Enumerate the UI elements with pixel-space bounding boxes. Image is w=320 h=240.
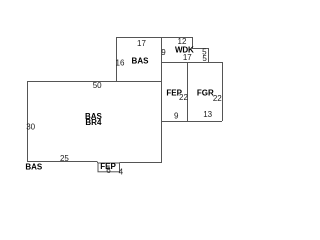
- svg-text:BAS: BAS: [132, 56, 150, 65]
- svg-text:BR4: BR4: [85, 118, 102, 127]
- wire bottom step: [97, 162, 99, 164]
- svg-text:25: 25: [60, 154, 69, 163]
- wire bottom line right: [120, 162, 162, 164]
- svg-text:5: 5: [202, 54, 207, 63]
- wire FEP FGR divider: [187, 62, 189, 121]
- svg-text:17: 17: [137, 39, 146, 48]
- svg-text:13: 13: [203, 110, 212, 119]
- wire big box top edge: [27, 81, 161, 83]
- svg-text:BAS: BAS: [25, 162, 43, 171]
- svg-text:FGR: FGR: [197, 89, 214, 98]
- wire WDK bottom / FEP FGR top: [161, 62, 222, 64]
- svg-text:22: 22: [179, 93, 188, 102]
- svg-text:22: 22: [213, 94, 222, 103]
- small FEP porch box: [98, 163, 120, 172]
- svg-text:4: 4: [119, 167, 124, 176]
- svg-text:FEP: FEP: [100, 162, 116, 171]
- wire bottom line left: [27, 161, 97, 163]
- wire main right vertical: [161, 37, 163, 163]
- svg-text:9: 9: [174, 112, 179, 121]
- svg-text:50: 50: [93, 81, 102, 90]
- svg-text:16: 16: [116, 59, 125, 68]
- wire WDK step right: [208, 48, 210, 62]
- wire WDK step top: [192, 48, 208, 50]
- svg-text:12: 12: [178, 37, 187, 46]
- wire WDK right upper edge: [192, 37, 194, 48]
- wire big box left edge: [27, 81, 29, 162]
- svg-text:30: 30: [26, 122, 35, 131]
- svg-text:9: 9: [161, 48, 166, 57]
- svg-text:17: 17: [183, 53, 192, 62]
- wire FEP FGR bottom edge: [161, 121, 222, 123]
- wire FGR right edge: [222, 62, 224, 121]
- wire BAS upper-left edge: [116, 37, 118, 81]
- wire top edge BAS/WDK: [116, 37, 192, 39]
